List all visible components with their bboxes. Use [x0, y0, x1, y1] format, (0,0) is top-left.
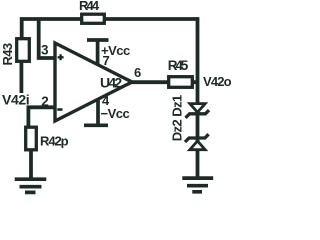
- zener diode Dz2 cathode bar: [185, 134, 209, 142]
- resistor R45: [169, 77, 193, 88]
- svg-text:U42: U42: [100, 74, 122, 90]
- wire pin3 drop from top rail: [39, 19, 56, 58]
- resistor R43: [17, 39, 30, 62]
- zener diode Dz1 triangle: [190, 104, 205, 113]
- power +Vcc T-bar and stem: [87, 40, 109, 66]
- svg-text:V42o: V42o: [203, 74, 232, 89]
- zener diode Dz2 triangle: [190, 141, 205, 150]
- svg-text:Dz2 Dz1: Dz2 Dz1: [170, 95, 185, 141]
- svg-text:R42p: R42p: [40, 134, 69, 149]
- ground left: [15, 179, 47, 192]
- wire right vertical output/feedback bus down to ground: [196, 17, 200, 178]
- svg-text:−Vcc: −Vcc: [101, 106, 130, 121]
- wire top feedback rail from R43 top to output node: [22, 19, 198, 38]
- zener diode Dz1 cathode bar: [186, 110, 210, 118]
- op-amp plus input marker: [58, 54, 64, 60]
- svg-text:R45: R45: [168, 58, 189, 73]
- ground right: [182, 178, 213, 192]
- svg-text:3: 3: [41, 43, 49, 58]
- svg-text:V42i: V42i: [2, 92, 29, 108]
- op-amp U1 triangle: [55, 43, 132, 121]
- svg-text:6: 6: [134, 65, 141, 80]
- svg-text:R44: R44: [79, 0, 100, 13]
- wire R43 bottom lead to V42i terminal: [19, 61, 23, 93]
- resistor R44: [82, 14, 105, 23]
- op-amp minus input marker: [57, 108, 62, 111]
- svg-text:R43: R43: [0, 43, 15, 65]
- wire pin2 to R42p top: [28, 107, 56, 127]
- wire R42p bottom to ground: [29, 150, 33, 179]
- svg-text:7: 7: [103, 53, 110, 68]
- resistor R42p: [26, 127, 37, 150]
- power -Vcc stem and T-bar: [84, 100, 108, 126]
- wire op-amp output to R45: [130, 80, 196, 84]
